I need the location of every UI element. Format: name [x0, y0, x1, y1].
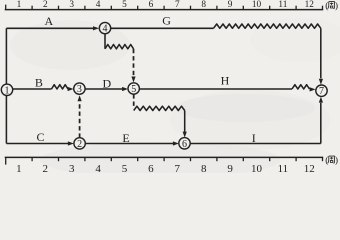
- svg-text:4: 4: [103, 24, 108, 35]
- svg-text:E: E: [122, 131, 129, 145]
- svg-text:3: 3: [69, 0, 74, 10]
- svg-text:C: C: [36, 130, 44, 144]
- svg-text:5: 5: [122, 163, 128, 173]
- svg-text:10: 10: [252, 0, 262, 10]
- svg-text:7: 7: [319, 86, 324, 97]
- svg-text:4: 4: [95, 163, 101, 173]
- svg-text:3: 3: [77, 84, 82, 95]
- svg-text:6: 6: [182, 139, 187, 150]
- svg-text:1: 1: [17, 0, 22, 10]
- svg-text:(: (: [325, 1, 328, 12]
- svg-text:7: 7: [175, 0, 180, 10]
- svg-text:12: 12: [304, 163, 315, 173]
- svg-text:8: 8: [201, 0, 206, 10]
- svg-text:B: B: [35, 76, 43, 90]
- svg-text:A: A: [44, 14, 53, 28]
- svg-text:6: 6: [149, 0, 154, 10]
- svg-text:2: 2: [43, 0, 48, 10]
- svg-text:2: 2: [43, 163, 49, 173]
- svg-text:5: 5: [131, 84, 136, 95]
- svg-text:9: 9: [227, 163, 233, 173]
- svg-text:): ): [335, 155, 338, 166]
- svg-text:11: 11: [278, 0, 287, 10]
- svg-text:4: 4: [96, 0, 101, 10]
- svg-text:(: (: [325, 155, 328, 166]
- svg-text:3: 3: [69, 163, 75, 173]
- svg-text:1: 1: [5, 85, 10, 96]
- svg-text:G: G: [162, 14, 171, 28]
- svg-text:9: 9: [228, 0, 233, 10]
- svg-text:2: 2: [77, 139, 82, 150]
- svg-text:5: 5: [122, 0, 127, 10]
- svg-text:6: 6: [148, 163, 154, 173]
- svg-text:D: D: [102, 77, 111, 91]
- svg-text:11: 11: [278, 163, 289, 173]
- svg-text:7: 7: [175, 163, 181, 173]
- svg-text:8: 8: [201, 163, 207, 173]
- svg-text:12: 12: [305, 0, 315, 10]
- svg-text:H: H: [221, 74, 230, 88]
- svg-text:I: I: [252, 131, 256, 145]
- svg-text:): ): [335, 1, 338, 12]
- svg-text:10: 10: [251, 163, 263, 173]
- svg-text:1: 1: [16, 163, 22, 173]
